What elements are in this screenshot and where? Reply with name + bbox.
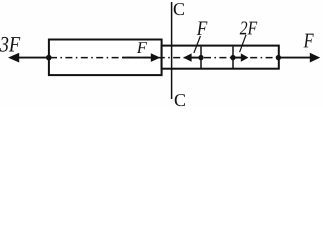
label 3F <box>0 37 20 52</box>
force F arrowhead (inside large segment) <box>151 53 161 62</box>
stepped shaft: large segment <box>49 40 162 76</box>
force 2F arrow shaft <box>233 57 242 59</box>
force F (right) arrowhead <box>310 53 320 63</box>
leader line from label 2F to arrow <box>240 35 246 52</box>
force F (right) arrow shaft <box>278 57 311 59</box>
section mark at F application point <box>200 47 202 69</box>
stepped shaft: small segment <box>162 46 279 69</box>
section mark at 2F application point <box>232 47 234 69</box>
label C (top) <box>174 3 184 15</box>
label F (right) <box>304 34 314 48</box>
force 3F arrowhead <box>8 53 19 63</box>
force F (small segment) arrowhead <box>183 53 191 61</box>
force 2F arrowhead <box>241 53 249 61</box>
force F (small segment) arrow shaft <box>191 57 202 59</box>
force F arrow shaft (inside large segment) <box>122 57 152 59</box>
label F (large segment) <box>137 42 147 53</box>
section line C-C <box>171 2 173 99</box>
node: application point of F (small segment) <box>198 55 203 60</box>
force 3F arrow shaft <box>18 57 49 59</box>
label F (small segment) <box>197 21 208 34</box>
label 2F <box>240 21 258 34</box>
leader line from label F to arrow <box>194 36 201 53</box>
node: application point of 2F <box>230 55 235 60</box>
label C (bottom) <box>175 94 185 106</box>
centerline (dash-dot axis) <box>50 57 278 59</box>
node: application point of 3F on left face <box>46 55 52 61</box>
node: application point of F on right face <box>276 55 281 60</box>
